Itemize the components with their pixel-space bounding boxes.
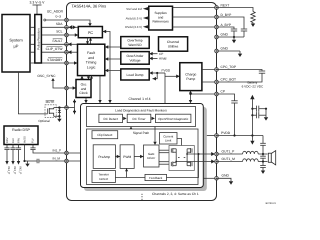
node bridge P: [186, 153, 188, 155]
svg-text:I²C: I²C: [88, 30, 93, 35]
Pullup Resistors box: [35, 15, 42, 64]
node drain: [58, 106, 60, 108]
node source: [58, 115, 60, 117]
filter cap rail: [262, 136, 264, 144]
pin A_BYP: [215, 25, 219, 29]
wire drain to MUTE pin: [54, 107, 67, 109]
svg-text:Load Dump: Load Dump: [126, 73, 143, 77]
node battery caps common: [265, 108, 267, 110]
wire STANDBY: [30, 57, 67, 63]
svg-text:Optional: Optional: [38, 119, 50, 123]
wire caps to ground: [265, 109, 267, 118]
ellipsis channels: [141, 194, 142, 200]
wire L1 to speaker: [258, 153, 267, 155]
pin CLIP_OTW: [65, 50, 69, 54]
svg-text:IN2_P: IN2_P: [19, 167, 23, 175]
wire charge pump to CPC_BOT: [202, 81, 218, 83]
svg-text:GND: GND: [221, 32, 229, 36]
svg-text:Limit: Limit: [165, 138, 172, 142]
System uP box: [2, 15, 30, 73]
Radio DSP box: [4, 126, 38, 145]
svg-text:References: References: [152, 20, 169, 24]
pin MUTE: [65, 106, 69, 110]
label VREF and IREF output: [126, 7, 148, 11]
svg-text:FAULT: FAULT: [52, 39, 62, 43]
svg-text:AVdd: AVdd: [159, 57, 167, 61]
pin IN1_P: [65, 151, 69, 155]
wire bridge OUT1_P: [187, 153, 211, 155]
pin SDA: [65, 26, 69, 30]
svg-text:Channel: Channel: [167, 40, 180, 44]
wire FLV with coupling cap C4 to IN1_P: [30, 145, 67, 154]
wire DC Timer to Open/Short: [152, 117, 155, 120]
wire PVDD to charge pump input: [165, 75, 180, 79]
ground at bypass node: [232, 37, 236, 43]
pin FAULT: [65, 43, 69, 47]
capacitor C12: [260, 143, 266, 156]
capacitor C13: [260, 156, 266, 165]
wire CLIP_OTW: [30, 47, 67, 53]
svg-text:A_BYP: A_BYP: [221, 23, 232, 27]
svg-text:OverTemp: OverTemp: [127, 39, 142, 43]
PreAmp box: [93, 145, 115, 169]
pin GND2: [215, 49, 219, 53]
wire STANDBY internal: [65, 61, 77, 65]
svg-text:Voltage: Voltage: [130, 58, 141, 62]
node battery cap2: [251, 114, 253, 116]
Supplies and References box U9: [149, 6, 173, 30]
Load Diagnostics and Fault Monitors box: [87, 107, 196, 127]
node PVDD cp cap: [233, 134, 235, 136]
svg-text:CP: CP: [159, 52, 163, 56]
Channel Utilities box U7: [159, 37, 188, 51]
wire SCL internal: [65, 33, 78, 37]
svg-text:DC Detect: DC Detect: [104, 117, 118, 121]
channel 1 block shadow: [84, 107, 207, 191]
wire OUT1_M external: [216, 157, 243, 162]
wire L2 to speaker: [258, 161, 267, 163]
channel 1 block: [81, 104, 204, 188]
Gate Driver box: [144, 145, 160, 167]
capacitor C14: [260, 166, 266, 171]
svg-text:Warn/SD: Warn/SD: [128, 43, 142, 47]
wire load diag to gate driver: [153, 127, 156, 146]
zener across transistor: [58, 108, 61, 117]
wire SCL: [30, 30, 67, 35]
wire GND3 external: [216, 174, 231, 182]
pin SCL: [65, 33, 69, 37]
wire fault logic to Load Dump: [105, 69, 121, 73]
svg-text:PVDD: PVDD: [221, 131, 231, 135]
wire AVDD sense into Over/Under: [149, 57, 166, 61]
wire battery rail: [251, 99, 253, 136]
pin REXT: [215, 6, 219, 10]
mute control bus vertical: [73, 99, 76, 114]
Current Limit box: [160, 133, 178, 145]
ground below R1: [251, 24, 255, 27]
svg-text:Timing: Timing: [86, 61, 97, 65]
pin IN_M: [65, 159, 69, 163]
svg-text:DVdd (3.3 V): DVdd (3.3 V): [125, 25, 142, 29]
wire RRV with coupling cap C1: [4, 145, 9, 165]
wire PVDD net to Load Dump: [149, 69, 171, 81]
svg-text:IN1_P: IN1_P: [53, 149, 62, 153]
wire uP to mute gate: [18, 72, 47, 114]
wire supplies to D_BYP: [173, 16, 219, 18]
svg-text:I2C_ADDR: I2C_ADDR: [47, 9, 64, 13]
ground GND3: [229, 181, 233, 184]
svg-text:MUTE: MUTE: [46, 100, 55, 104]
wire CP external with cap C9: [216, 89, 238, 135]
svg-text:GND: GND: [221, 46, 229, 50]
label DVDD 3.3V output: [125, 25, 148, 29]
svg-text:Vref and Iref: Vref and Iref: [126, 7, 142, 11]
wire CP pin net: [189, 91, 218, 104]
arrow OUT1_M: [211, 160, 215, 164]
wire SDA internal bidirectional: [65, 25, 78, 29]
svg-text:B0790-01: B0790-01: [266, 202, 277, 205]
DC Detect box: [99, 114, 123, 122]
wire PWM to Gate Driver: [134, 155, 143, 159]
svg-text:Feedback: Feedback: [149, 176, 163, 180]
svg-text:PreAmp: PreAmp: [98, 155, 110, 159]
svg-text:IN4_P: IN4_P: [7, 167, 11, 175]
svg-text:GND: GND: [222, 174, 230, 178]
wire GND2 external: [216, 46, 240, 51]
svg-text:Charge: Charge: [185, 72, 196, 76]
ground at mute transistor: [54, 116, 62, 122]
inductor L1: [243, 151, 259, 154]
node filter M: [262, 160, 264, 162]
label Battery: [242, 81, 264, 89]
pin OUT1_M: [215, 160, 219, 164]
battery feed arrow: [250, 95, 254, 100]
svg-text:Pump: Pump: [186, 77, 195, 81]
capacitor C11 battery bulk: [252, 112, 266, 118]
wire bridge OUT1_M: [176, 161, 211, 163]
wire A_BYP external with cap C7: [216, 23, 237, 37]
wire IN_M with series cap C5: [25, 156, 67, 163]
svg-text:AVdd (6.5 V): AVdd (6.5 V): [126, 16, 142, 20]
wire GND1 external: [216, 32, 244, 37]
svg-text:Channel 1 of 4: Channel 1 of 4: [129, 97, 151, 101]
wire SDA: [30, 22, 67, 27]
svg-text:Radio DSP: Radio DSP: [12, 128, 30, 132]
pin CPC_BOT: [215, 80, 219, 84]
wire OSC_SYNC: [37, 74, 67, 88]
wire fault logic to channel pair: [87, 76, 93, 80]
wire I2C_ADDR 0-3: [44, 9, 67, 21]
label MUTE: [46, 100, 55, 104]
svg-text:Channels 2, 3, 4: Same as Ch 1: Channels 2, 3, 4: Same as Ch 1: [152, 192, 199, 196]
svg-text:OUT1_M: OUT1_M: [222, 157, 236, 161]
svg-text:D_BYP: D_BYP: [221, 13, 233, 17]
node CP junction: [189, 93, 191, 95]
wire supplies to A_BYP: [173, 26, 219, 28]
wire FAULT: [30, 39, 67, 45]
pin CP: [215, 92, 219, 96]
wire osc to channel: [84, 98, 87, 104]
svg-text:6 VDC–22 VDC: 6 VDC–22 VDC: [242, 85, 264, 89]
wire CLIP_OTW internal: [65, 50, 77, 54]
svg-text:SCL: SCL: [56, 30, 63, 34]
node bridge M: [175, 161, 177, 163]
pin GND3: [215, 177, 219, 181]
pin OUT1_P: [215, 152, 219, 156]
svg-text:DC Timer: DC Timer: [132, 117, 145, 121]
wire IN1_P internal: [65, 152, 93, 154]
wire MUTE internal to control bus: [65, 107, 74, 109]
signal path box: [87, 129, 199, 185]
pin GND1: [215, 35, 219, 39]
wire I2C_ADDR internal to I2C block: [65, 20, 92, 26]
ground filter: [261, 171, 265, 174]
svg-text:Pullup Resistors: Pullup Resistors: [36, 28, 40, 50]
Feedback box: [145, 174, 167, 180]
wire I2C control bus down to channel: [102, 30, 111, 104]
arrow PVDD to other channels: [250, 136, 254, 145]
Clip Detect box: [92, 131, 118, 139]
svg-text:CP: CP: [221, 89, 226, 93]
node filter P: [262, 153, 264, 155]
capacitor C8 charge pump flying cap: [259, 71, 265, 73]
node feedback tap: [198, 153, 200, 155]
wire PVDD external: [216, 131, 263, 136]
ground at GND2: [238, 51, 242, 57]
speaker LS1: [268, 151, 275, 165]
node battery cap1: [251, 108, 253, 110]
svg-text:0–3: 0–3: [55, 14, 61, 18]
wire CPC_BOT external: [216, 74, 262, 83]
OverTemp Warn/SD box U4: [121, 37, 149, 49]
svg-text:AVSS: AVSS: [24, 136, 27, 143]
wire gate driver to bridge high side: [159, 150, 169, 153]
wire supplies to REXT: [173, 7, 219, 9]
H-bridge output stage: [169, 146, 194, 171]
node AVSS/IN_M junction: [23, 160, 25, 162]
svg-text:RLV: RLV: [12, 138, 15, 143]
pin CPC_TOP: [215, 68, 219, 72]
pin D_BYP: [215, 15, 219, 19]
wire FRV with coupling cap C3: [16, 145, 21, 165]
wire REXT external: [216, 3, 253, 11]
ground battery caps: [264, 117, 268, 120]
svg-text:PWM: PWM: [123, 155, 131, 159]
wire Current Limit to bridge: [177, 139, 182, 146]
Over/Under Voltage box U5: [121, 52, 149, 65]
wire fault logic to Over/Under Voltage: [105, 57, 121, 61]
svg-text:IN3_P: IN3_P: [13, 167, 17, 175]
svg-text:Load Diagnostics and Fault Mon: Load Diagnostics and Fault Monitors: [115, 108, 167, 112]
Tweeter Detect box: [92, 171, 115, 183]
wire CP sense into Over/Under: [149, 52, 163, 56]
svg-text:SDA: SDA: [56, 22, 64, 26]
svg-text:Utilities: Utilities: [168, 45, 179, 49]
wire RLV with coupling cap C2: [10, 145, 15, 165]
svg-text:System: System: [9, 38, 23, 43]
svg-text:CPC_TOP: CPC_TOP: [221, 65, 237, 69]
wire FAULT internal: [65, 42, 77, 46]
wire CPC_TOP external: [216, 65, 262, 71]
IC outline TAS5414A: [67, 3, 217, 201]
I2C block U1: [78, 27, 102, 38]
Load Dump box U6: [121, 69, 149, 80]
DC Timer box: [127, 114, 151, 122]
svg-text:Signal Path: Signal Path: [133, 131, 150, 135]
wire PVDD pin internal: [207, 135, 218, 137]
Charge Pump box U8: [180, 63, 202, 91]
svg-text:OSC_SYNC: OSC_SYNC: [37, 74, 56, 78]
svg-text:CLIP_OTW: CLIP_OTW: [46, 47, 64, 51]
wire I2C to Fault logic bidirectional pair: [86, 38, 92, 45]
Open/Short Diagnostic box: [156, 114, 191, 122]
pin I2C_ADDR: [65, 18, 69, 22]
svg-text:FLV: FLV: [32, 138, 35, 143]
inductor L2: [243, 159, 259, 162]
wire PreAmp to PWM: [115, 155, 120, 159]
resistor R1: [251, 12, 255, 24]
node PVDD branch: [156, 72, 158, 74]
wire charge pump to CPC_TOP: [202, 69, 218, 71]
svg-text:Clip Detect: Clip Detect: [97, 133, 112, 137]
wire feedback to PWM: [115, 168, 145, 177]
svg-text:Driver: Driver: [147, 156, 155, 160]
svg-text:Logic: Logic: [87, 65, 96, 69]
svg-text:RRV: RRV: [6, 137, 9, 143]
svg-text:TAS5414A, 36 Pins: TAS5414A, 36 Pins: [72, 3, 107, 8]
capacitor C10 battery bulk: [252, 106, 266, 112]
supply rail 3.3V-5V: [30, 1, 46, 15]
wire OSC_SYNC internal: [65, 86, 76, 90]
pin PVDD: [215, 134, 219, 138]
Osc and Clock box U3: [76, 80, 91, 98]
wire GND pin internal: [203, 177, 218, 179]
PWM box: [120, 145, 134, 169]
svg-text:3.3 V–5 V: 3.3 V–5 V: [30, 1, 46, 5]
wire D_BYP external with cap C6: [216, 13, 247, 37]
svg-text:IN_M: IN_M: [53, 156, 61, 160]
wire signal path to load diag: [129, 127, 132, 130]
svg-text:Open/Short Diagnostic: Open/Short Diagnostic: [158, 117, 189, 121]
Fault and Timing Logic box U2: [78, 44, 105, 75]
arrow OUT1_P: [211, 152, 215, 156]
wire feedback tap from outputs: [167, 154, 199, 178]
wire gate driver to bridge low side: [159, 162, 169, 165]
wire OUT1_P external: [216, 149, 243, 154]
svg-text:Over/Under: Over/Under: [126, 54, 144, 58]
svg-text:OUT1_P: OUT1_P: [222, 149, 236, 153]
svg-text:µP: µP: [14, 44, 19, 49]
svg-text:REXT: REXT: [221, 3, 230, 7]
wire DC Detect to DC Timer: [123, 117, 126, 120]
svg-text:Clock: Clock: [79, 91, 88, 95]
ground at AVSS node: [25, 161, 29, 167]
svg-text:and: and: [88, 56, 94, 60]
svg-text:Detect: Detect: [99, 177, 108, 181]
svg-text:STANDBY: STANDBY: [47, 58, 63, 62]
wire PVDD vertical from channel: [164, 73, 166, 103]
wire fault logic down bus to channel: [98, 76, 101, 104]
wire fault logic to OverTemp: [105, 45, 121, 49]
svg-text:CPC_BOT: CPC_BOT: [221, 78, 237, 82]
optional mute transistor Q1 (dashed box): [45, 105, 56, 118]
node bypass gnd: [233, 36, 235, 38]
svg-text:Fault: Fault: [87, 51, 95, 55]
svg-text:FRV: FRV: [18, 138, 21, 143]
wire fault logic to osc: [80, 76, 83, 80]
pin OSC_SYNC: [65, 86, 69, 90]
wire AVSS return: [24, 145, 26, 162]
node PVDD battery: [251, 134, 253, 136]
wire IN_M internal: [65, 160, 93, 162]
svg-text:PVDD: PVDD: [162, 69, 171, 73]
label AVDD 6.5V output: [126, 16, 149, 20]
pin STANDBY: [65, 61, 69, 65]
